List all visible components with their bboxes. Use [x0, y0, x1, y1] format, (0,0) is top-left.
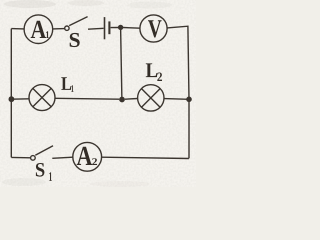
- wire: V to top-right corner and down right side: [167, 26, 189, 158]
- wire: middle node to lamp L2: [125, 98, 138, 101]
- ammeter A1 circle: [24, 15, 53, 44]
- wire: A2 to bottom-right corner: [102, 157, 189, 158]
- switch S blade: [69, 17, 87, 26]
- lamp L1 cross: [33, 88, 51, 106]
- wire: L1 to middle node: [55, 97, 119, 100]
- wire: A1 to switch S pivot: [53, 28, 65, 30]
- label A1 subscript 1: [46, 31, 49, 38]
- label V (voltmeter letter): [148, 20, 162, 37]
- wire: S1 fixed contact to ammeter A2: [52, 157, 72, 158]
- wire: top-left corner to ammeter A1: [11, 28, 24, 30]
- wire: bottom-left corner to switch S1 pivot: [11, 156, 30, 158]
- node dot: middle left: [9, 96, 15, 102]
- node dot: middle right: [186, 97, 192, 103]
- wire: battery branch vertical down to middle node: [121, 27, 122, 99]
- label A1 letter A: [31, 21, 46, 38]
- label L2 subscript 2: [157, 72, 162, 81]
- label L1 subscript 1: [71, 85, 73, 92]
- lamp L1 circle: [29, 85, 55, 111]
- battery long plate (positive): [104, 17, 106, 39]
- switch S pivot circle: [65, 26, 69, 30]
- wire: middle left dot to lamp L1: [11, 98, 29, 100]
- label A2 subscript 2: [92, 158, 97, 165]
- wire: switch S fixed contact to battery: [88, 27, 104, 30]
- label S1 subscript 1: [49, 172, 52, 181]
- switch S1 blade: [35, 146, 53, 155]
- wire: left vertical from top-left corner down to S1 corner: [10, 29, 12, 158]
- label L1 letter L: [61, 77, 71, 90]
- label S (switch S): [70, 33, 80, 47]
- lamp L2 circle: [138, 85, 164, 111]
- label A2 letter A: [77, 147, 92, 165]
- label S1 letter S: [36, 163, 44, 177]
- label L2 letter L: [146, 63, 158, 77]
- wire: battery to node dot: [111, 27, 118, 29]
- switch S1 pivot circle: [31, 156, 36, 161]
- voltmeter V circle: [140, 15, 167, 42]
- ammeter A2 circle: [73, 142, 102, 171]
- wire: L2 to right middle node: [164, 98, 189, 101]
- wire: node to voltmeter V: [123, 27, 140, 30]
- lamp L2 cross: [142, 89, 161, 108]
- paper background: [0, 0, 196, 187]
- node dot: battery branch top: [118, 25, 123, 30]
- node dot: middle center: [119, 97, 125, 103]
- battery short plate (negative): [108, 21, 110, 34]
